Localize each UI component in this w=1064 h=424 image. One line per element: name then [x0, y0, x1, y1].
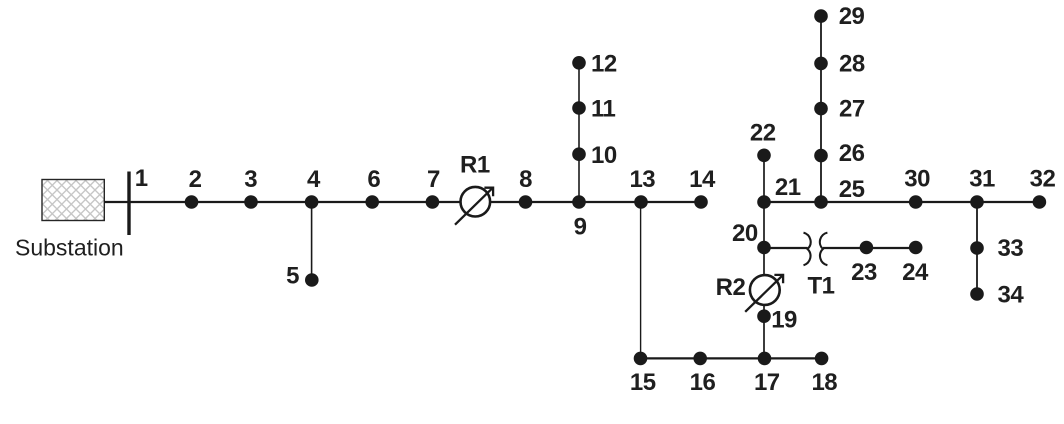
svg-text:26: 26 [839, 140, 865, 167]
svg-text:8: 8 [519, 166, 532, 193]
svg-text:1: 1 [135, 165, 148, 192]
svg-text:20: 20 [732, 220, 758, 247]
svg-text:24: 24 [902, 259, 929, 286]
svg-text:6: 6 [367, 166, 380, 193]
svg-text:18: 18 [811, 369, 837, 396]
svg-text:4: 4 [307, 166, 321, 193]
svg-text:2: 2 [189, 166, 202, 193]
svg-text:19: 19 [771, 307, 797, 334]
svg-text:3: 3 [244, 166, 257, 193]
svg-text:R2: R2 [716, 274, 746, 301]
svg-text:R1: R1 [460, 152, 490, 179]
svg-text:27: 27 [839, 96, 865, 123]
svg-text:10: 10 [591, 142, 617, 169]
svg-text:30: 30 [904, 166, 930, 193]
svg-text:22: 22 [750, 120, 776, 147]
svg-text:33: 33 [998, 235, 1024, 262]
svg-text:23: 23 [851, 259, 877, 286]
svg-text:25: 25 [839, 176, 865, 203]
svg-text:7: 7 [427, 166, 440, 193]
svg-text:9: 9 [574, 214, 587, 241]
svg-text:Substation: Substation [15, 235, 124, 261]
svg-text:32: 32 [1030, 166, 1056, 193]
svg-text:16: 16 [690, 369, 716, 396]
svg-text:28: 28 [839, 51, 865, 78]
svg-text:21: 21 [775, 174, 801, 201]
svg-text:31: 31 [969, 166, 995, 193]
svg-text:13: 13 [629, 166, 655, 193]
svg-text:15: 15 [630, 369, 656, 396]
svg-text:5: 5 [286, 263, 299, 290]
svg-text:11: 11 [591, 96, 616, 123]
svg-text:14: 14 [689, 166, 716, 193]
svg-text:17: 17 [754, 369, 780, 396]
svg-text:34: 34 [998, 282, 1025, 309]
svg-text:T1: T1 [808, 273, 835, 300]
svg-text:12: 12 [591, 51, 617, 78]
svg-text:29: 29 [839, 3, 865, 30]
